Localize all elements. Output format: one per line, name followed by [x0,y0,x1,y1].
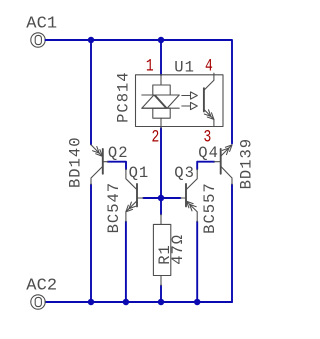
svg-text:3: 3 [204,127,212,148]
U1 light arrow 1 [182,92,198,99]
wire Q3 base [161,197,181,199]
transistor Q1 (BC547 NPN) [126,169,143,222]
wire Q2 base to Q1 collector [108,162,126,170]
svg-text:2: 2 [152,127,160,148]
wire Q3 emitter down [196,222,198,302]
U1 pin 1 stub [160,75,162,85]
wire Q1 emitter down [125,222,127,302]
U1 LED top plate [153,85,170,95]
junction bottom 3 [158,299,165,306]
wire U1 pin1 [160,40,162,75]
svg-text:AC1: AC1 [26,15,57,34]
U1 phototransistor collector pin 4 [204,73,214,90]
wire R1 bottom [160,286,162,303]
junction bottom 4 [194,299,201,306]
svg-text:BD140: BD140 [66,136,84,188]
U1 light arrow 2 [182,102,198,109]
junction top-left [88,37,95,44]
U1 phototransistor emitter pin 3 [204,109,214,126]
terminal AC1 [31,33,45,47]
U1 LED diode up [142,95,166,108]
U1 LED diode down [155,95,179,108]
wire left vertical lower [90,185,92,303]
U1 pin 2 stub [160,118,162,128]
junction bottom 1 [88,299,95,306]
wire Q1 base [143,197,161,199]
wire U1 pin2 to center node and R1 [160,128,162,214]
svg-text:BC547: BC547 [105,182,123,234]
svg-text:BC557: BC557 [201,182,219,234]
wire Q3 collector to Q4 base [197,162,214,170]
svg-text:Q2: Q2 [108,144,129,162]
transistor Q4 (BD139 NPN) [214,145,232,185]
transistor Q3 (BC557 PNP) [181,169,198,222]
svg-text:AC2: AC2 [26,276,57,295]
transistor Q2 (BD140 PNP) [91,145,108,185]
svg-text:1: 1 [146,56,154,77]
node center junction [158,195,165,202]
U1 phototransistor bar [203,88,205,111]
svg-text:Q1: Q1 [129,164,150,182]
svg-text:4: 4 [205,55,213,76]
junction top-mid [158,37,165,44]
svg-text:Q3: Q3 [174,164,195,182]
U1 LED rails [142,95,179,108]
optocoupler U1 PC814 [136,73,224,128]
wire top bus with right drop [45,40,232,143]
junction bottom 2 [123,299,129,306]
resistor R1 [153,214,170,285]
svg-text:BD139: BD139 [238,138,256,190]
wire right vertical lower [231,185,233,303]
svg-text:PC814: PC814 [114,71,132,123]
wire left vertical upper [90,40,92,144]
U1 LED bottom plate [153,108,170,118]
wire bottom bus [45,301,232,303]
terminal AC2 [31,295,45,309]
svg-text:U1: U1 [174,58,195,76]
svg-text:47Ω: 47Ω [169,234,187,265]
